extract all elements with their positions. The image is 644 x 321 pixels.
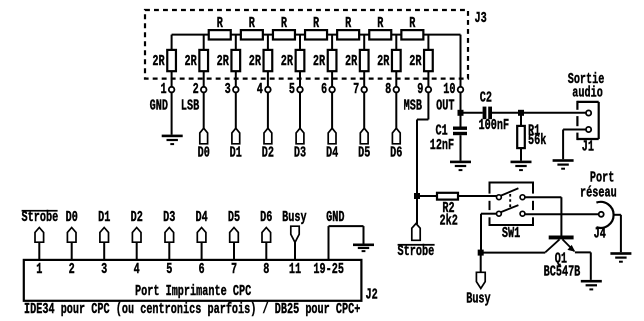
pin number 19-25 of J2 — [313, 261, 344, 277]
label GND pin1 — [150, 98, 169, 114]
wire J1 lower pin to ground — [563, 130, 586, 160]
pin number 7 of J2 — [231, 261, 237, 277]
wire Strobe node to R2 — [417, 195, 437, 197]
resistor 2R (pin 5) with wire — [281, 35, 305, 88]
pin 10 of J3 — [443, 81, 463, 97]
svg-text:D3: D3 — [163, 209, 175, 225]
wire OUT to C1 — [460, 113, 462, 127]
svg-text:2k2: 2k2 — [440, 213, 458, 229]
connector arrow Busy to J2 pin 11 — [291, 226, 299, 260]
ground under R1 — [511, 161, 532, 172]
svg-text:R: R — [377, 16, 384, 32]
svg-text:Busy: Busy — [282, 209, 307, 225]
caption IDE34/DB25 — [24, 302, 360, 318]
resistor R (4) value R — [305, 16, 327, 40]
svg-text:D6: D6 — [390, 145, 402, 161]
node R1 junction — [518, 110, 524, 116]
resistor 2R (pin 9) with wire — [409, 35, 433, 88]
svg-text:7: 7 — [353, 81, 359, 97]
wire top bus — [172, 34, 461, 36]
wire SW1 to Busy node — [481, 214, 497, 253]
connector arrow D0 (top) — [198, 92, 210, 161]
connector arrow D4 to J2 pin 6 — [197, 228, 206, 261]
svg-text:2: 2 — [193, 81, 199, 97]
svg-text:R: R — [313, 16, 320, 32]
capacitor C2 100nF — [479, 90, 510, 133]
connector arrow D1 to J2 pin 3 — [100, 228, 109, 261]
connector arrow D4 (top) — [326, 92, 339, 161]
svg-text:1: 1 — [36, 261, 42, 277]
wire C1 to ground — [460, 135, 462, 160]
label Port reseau — [580, 170, 617, 201]
svg-text:2R: 2R — [152, 53, 165, 69]
resistor 2R (pin 4) with wire — [249, 35, 273, 88]
connector J4 — [594, 202, 614, 242]
node OUT junction — [458, 110, 464, 116]
svg-text:3: 3 — [225, 81, 231, 97]
svg-text:BC547B: BC547B — [544, 264, 581, 280]
svg-text:SW1: SW1 — [502, 226, 520, 242]
svg-text:2R: 2R — [217, 53, 230, 69]
pin 9 of J3 — [417, 81, 431, 97]
pin 5 of J3 — [289, 81, 303, 97]
svg-text:2R: 2R — [249, 53, 262, 69]
connector arrow D0 to J2 pin 2 — [67, 228, 76, 261]
connector arrow Strobe (right) — [412, 224, 420, 241]
label D0 (J2) — [66, 209, 78, 225]
svg-text:D5: D5 — [228, 209, 240, 225]
label MSB pin9 — [404, 98, 423, 114]
svg-text:Busy: Busy — [466, 291, 491, 307]
svg-text:1: 1 — [160, 81, 166, 97]
resistor R1 56k — [517, 123, 547, 149]
svg-text:C2: C2 — [480, 90, 492, 106]
svg-text:Port Imprimante CPC: Port Imprimante CPC — [135, 283, 252, 299]
label J3 — [475, 10, 487, 26]
svg-text:7: 7 — [231, 261, 237, 277]
resistor R (1) value R — [209, 16, 231, 40]
svg-text:D5: D5 — [358, 145, 370, 161]
svg-text:D3: D3 — [294, 145, 306, 161]
svg-text:R: R — [217, 16, 224, 32]
pin 7 of J3 — [353, 81, 367, 97]
label Port Imprimante CPC — [135, 283, 252, 299]
svg-text:J1: J1 — [582, 139, 594, 155]
pin number 11 of J2 — [289, 261, 301, 277]
svg-text:J4: J4 — [594, 226, 607, 242]
ground at J2 GND — [353, 244, 374, 253]
pin number 4 of J2 — [134, 261, 141, 277]
ground at J1 — [553, 159, 574, 170]
wire R1 to ground — [520, 148, 522, 161]
svg-text:D0: D0 — [66, 209, 78, 225]
connector arrow Busy (right) — [476, 272, 485, 288]
connector J1 audio jack — [577, 101, 598, 155]
svg-text:J3: J3 — [475, 10, 487, 26]
wire MSB pin9 jog — [417, 92, 428, 196]
wire pin 10 from bus — [460, 35, 462, 88]
resistor R (6) value R — [369, 16, 391, 40]
connector arrow D5 (top) — [358, 92, 370, 161]
svg-text:J2: J2 — [366, 287, 378, 303]
wire C2 to J1 — [492, 112, 586, 114]
resistor 2R (pin 8) with wire — [377, 35, 401, 88]
resistor R2 2k2 — [437, 193, 458, 230]
svg-text:4: 4 — [134, 261, 141, 277]
svg-text:D2: D2 — [131, 209, 143, 225]
switch SW1 — [490, 182, 534, 242]
svg-text:2R: 2R — [281, 53, 294, 69]
svg-text:8: 8 — [385, 81, 391, 97]
label Busy (J2) — [282, 209, 307, 225]
connector arrow D1 (top) — [230, 92, 242, 161]
wire node to Strobe arrow — [416, 196, 418, 224]
label J2 — [366, 287, 378, 303]
svg-text:R: R — [345, 16, 352, 32]
pin 1 of J3 — [160, 81, 174, 97]
wire SW1 to Q1 base — [525, 197, 562, 235]
svg-text:Port: Port — [590, 170, 614, 186]
svg-text:D1: D1 — [230, 145, 242, 161]
svg-text:2R: 2R — [185, 53, 198, 69]
pin number 2 of J2 — [69, 261, 75, 277]
svg-text:9: 9 — [417, 81, 423, 97]
svg-text:GND: GND — [326, 209, 345, 225]
pin 2 of J3 — [193, 81, 207, 97]
svg-text:2R: 2R — [313, 53, 326, 69]
svg-text:OUT: OUT — [436, 98, 455, 114]
capacitor C1 12nF — [430, 123, 467, 153]
label D2 (J2) — [131, 209, 143, 225]
svg-text:R: R — [249, 16, 256, 32]
pin number 3 of J2 — [101, 261, 107, 277]
label D4 (J2) — [195, 209, 208, 225]
svg-text:D0: D0 — [198, 145, 210, 161]
svg-text:R: R — [281, 16, 288, 32]
label Busy (right) — [466, 291, 491, 307]
svg-text:6: 6 — [199, 261, 205, 277]
svg-text:réseau: réseau — [580, 185, 617, 201]
svg-text:Strobe: Strobe — [22, 209, 59, 225]
svg-text:19-25: 19-25 — [313, 261, 344, 277]
svg-text:2R: 2R — [377, 53, 390, 69]
wire Busy node to Q1 collector — [481, 252, 545, 254]
connector J2 printer port box — [24, 260, 362, 301]
resistor R (3) value R — [273, 16, 295, 40]
svg-text:R: R — [409, 16, 416, 32]
transistor Q1 BC547B — [544, 236, 591, 281]
wire J4 to ground — [613, 215, 621, 252]
svg-text:MSB: MSB — [404, 98, 423, 114]
svg-text:12nF: 12nF — [430, 137, 454, 153]
pin number 8 of J2 — [263, 261, 269, 277]
label Sortie audio — [568, 72, 605, 101]
pin 8 of J3 — [385, 81, 399, 97]
resistor 2R (pin 3) with wire — [217, 35, 241, 88]
svg-text:D4: D4 — [195, 209, 208, 225]
label Strobe (J2) with overline — [22, 209, 59, 225]
svg-text:2: 2 — [69, 261, 75, 277]
resistor 2R (pin 7) with wire — [345, 35, 369, 88]
svg-text:11: 11 — [289, 261, 301, 277]
svg-text:D2: D2 — [262, 145, 274, 161]
label D5 (J2) — [228, 209, 240, 225]
wire Busy node to arrow — [480, 253, 482, 273]
svg-text:8: 8 — [263, 261, 269, 277]
svg-text:Strobe: Strobe — [398, 243, 435, 259]
svg-text:10: 10 — [443, 81, 455, 97]
svg-text:4: 4 — [257, 81, 264, 97]
connector arrow D6 (top) — [390, 92, 402, 161]
svg-text:3: 3 — [101, 261, 107, 277]
ground under C1 — [450, 161, 471, 172]
label OUT pin10 — [436, 98, 455, 114]
resistor network module J3 dashed outline — [145, 10, 468, 79]
connector arrow Strobe to J2 pin 1 — [35, 228, 44, 261]
svg-text:D6: D6 — [260, 209, 272, 225]
ground at J3 pin1 — [162, 135, 183, 146]
node Strobe junction — [414, 193, 420, 199]
svg-text:6: 6 — [321, 81, 327, 97]
svg-text:5: 5 — [289, 81, 295, 97]
connector arrow D2 to J2 pin 4 — [132, 228, 141, 261]
svg-text:GND: GND — [150, 98, 169, 114]
resistor R (7) value R — [401, 16, 423, 40]
label D6 (J2) — [260, 209, 272, 225]
svg-text:5: 5 — [166, 261, 172, 277]
wire SW1 to J4 — [525, 213, 599, 215]
wire pin1 to ground — [171, 92, 173, 135]
wire OUT to C2 — [461, 112, 483, 114]
label LSB pin2 — [181, 98, 200, 114]
label GND (J2) — [326, 209, 345, 225]
resistor R (2) value R — [241, 16, 263, 40]
pin 4 of J3 — [257, 81, 271, 97]
svg-text:D4: D4 — [326, 145, 339, 161]
pin 6 of J3 — [321, 81, 335, 97]
resistor 2R (pin 1) with wire — [152, 35, 176, 88]
svg-text:audio: audio — [572, 85, 603, 101]
label D3 (J2) — [163, 209, 175, 225]
svg-text:2R: 2R — [409, 53, 422, 69]
resistor R (5) value R — [337, 16, 359, 40]
connector arrow D2 (top) — [262, 92, 274, 161]
pin number 5 of J2 — [166, 261, 172, 277]
label Strobe (right) with overline — [398, 243, 435, 259]
svg-text:100nF: 100nF — [479, 117, 510, 133]
svg-text:D1: D1 — [98, 209, 110, 225]
ground at J4 — [610, 252, 631, 263]
wire GND J2 to ground — [329, 226, 364, 260]
svg-text:LSB: LSB — [181, 98, 200, 114]
svg-text:56k: 56k — [528, 133, 547, 149]
wire pin10 to OUT node — [460, 92, 462, 113]
node Busy junction — [478, 250, 484, 256]
pin 3 of J3 — [225, 81, 239, 97]
connector arrow D6 to J2 pin 8 — [262, 228, 271, 261]
connector arrow D5 to J2 pin 7 — [230, 228, 239, 261]
wire R1 top — [520, 113, 522, 126]
pin number 1 of J2 — [36, 261, 42, 277]
svg-text:2R: 2R — [345, 53, 358, 69]
ground at Q1 emitter — [581, 280, 602, 291]
resistor 2R (pin 2) with wire — [185, 35, 209, 88]
wire R2 to SW1 — [458, 195, 497, 197]
resistor 2R (pin 6) with wire — [313, 35, 337, 88]
pin number 6 of J2 — [199, 261, 205, 277]
svg-text:IDE34 pour CPC (ou centronics: IDE34 pour CPC (ou centronics parfois) /… — [24, 302, 360, 318]
connector arrow D3 (top) — [294, 92, 306, 161]
label D1 (J2) — [98, 209, 110, 225]
connector arrow D3 to J2 pin 5 — [165, 228, 174, 261]
